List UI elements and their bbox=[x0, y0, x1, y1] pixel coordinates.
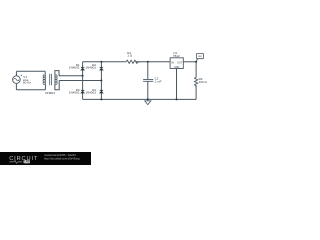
node tap right branch bbox=[100, 80, 102, 82]
transformer XFMR1 secondary coil bbox=[55, 75, 57, 85]
wire top rail bbox=[83, 61, 125, 63]
wire R2 branch lower bbox=[195, 85, 197, 99]
wire down to primary top bbox=[44, 71, 46, 75]
wire V1 top lead bbox=[15, 71, 17, 76]
svg-text:7812: 7812 bbox=[173, 54, 180, 58]
node flag tail bbox=[196, 59, 198, 62]
wire secondary top lead bbox=[55, 71, 59, 76]
svg-text:1N4001: 1N4001 bbox=[85, 91, 96, 95]
node bottom rail at right branch bbox=[100, 98, 102, 100]
wire R2 branch upper bbox=[195, 62, 197, 76]
svg-text:OUT: OUT bbox=[177, 61, 183, 64]
svg-text:1N4001: 1N4001 bbox=[69, 91, 80, 95]
wire secondary to right branch tap bbox=[59, 80, 101, 82]
wire secondary bottom lead bbox=[55, 81, 59, 90]
wire bottom of source loop bbox=[16, 89, 45, 91]
wire bridge right branch bbox=[100, 62, 102, 100]
wire secondary to left branch tap bbox=[59, 75, 83, 77]
diode D3 bbox=[80, 90, 85, 94]
wire V1 bottom lead bbox=[15, 83, 17, 89]
svg-text:GND: GND bbox=[174, 66, 180, 69]
wire U1 out to R2 node bbox=[183, 61, 196, 63]
wire top of source loop bbox=[16, 70, 45, 72]
node bottom rail at U1 gnd bbox=[176, 98, 178, 100]
node out bbox=[195, 61, 197, 63]
watermark bbox=[0, 152, 91, 165]
diode D4 bbox=[99, 90, 104, 94]
wire C1 branch lower bbox=[147, 81, 149, 99]
transformer XFMR1 primary coil bbox=[43, 75, 45, 85]
voltage source V1 bbox=[13, 75, 23, 84]
diode D1 bbox=[80, 67, 85, 71]
wire rail R1 to U1 bbox=[136, 61, 170, 63]
node tap left branch bbox=[82, 75, 84, 77]
svg-text:60 Hz: 60 Hz bbox=[23, 81, 31, 85]
svg-text:LAB: LAB bbox=[24, 160, 29, 164]
diode D2 bbox=[99, 67, 104, 71]
svg-text:XFMR1: XFMR1 bbox=[45, 91, 56, 95]
svg-text:1 mF: 1 mF bbox=[155, 79, 162, 83]
svg-text:100 Ω: 100 Ω bbox=[199, 80, 208, 84]
node junction dots bbox=[82, 61, 198, 101]
resistor R2 bbox=[195, 76, 198, 87]
svg-text:IN: IN bbox=[171, 61, 174, 64]
node bottom rail at ground bbox=[147, 98, 149, 100]
op-amp U1 box bbox=[170, 58, 183, 69]
ground bbox=[145, 99, 151, 104]
svg-text:1 Ω: 1 Ω bbox=[127, 54, 133, 58]
wire bottom rail bbox=[83, 98, 197, 100]
node top rail at right branch bbox=[100, 61, 102, 63]
svg-text:http://circuitlab.com/c5b43xhg: http://circuitlab.com/c5b43xhg bbox=[44, 156, 80, 160]
wire C1 branch upper bbox=[147, 62, 149, 80]
svg-text:1N4001: 1N4001 bbox=[69, 66, 80, 70]
wire up to primary bottom bbox=[44, 84, 46, 90]
node top rail at C1 bbox=[147, 61, 149, 63]
resistor R1 bbox=[125, 60, 140, 63]
capacitor C1 bbox=[143, 79, 153, 81]
svg-text:1N4001: 1N4001 bbox=[85, 66, 96, 70]
wire U1 gnd pin down bbox=[176, 69, 178, 100]
node flag box bbox=[196, 53, 203, 58]
svg-text:out: out bbox=[198, 54, 202, 58]
svg-text:masteruse123456 : lab243: masteruse123456 : lab243 bbox=[44, 153, 76, 157]
transformer core bbox=[50, 74, 52, 85]
wire bridge left branch bbox=[82, 62, 84, 100]
